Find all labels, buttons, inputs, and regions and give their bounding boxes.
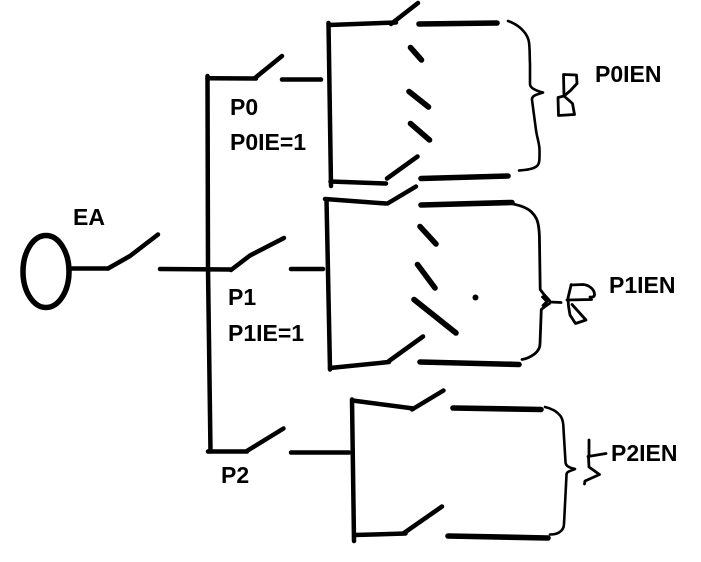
switch EA [108,235,158,269]
wire P1 to box [291,267,323,272]
EA source circle [23,236,69,308]
label P0IEN [595,63,661,86]
brace P0IEN [508,21,543,171]
wire P0 to box [282,77,321,82]
actuator stroke P1 [414,300,456,334]
squiggle P0IEN [558,75,577,116]
gate box P1 top edge [325,199,386,204]
label P2IEN [611,442,677,465]
label P1 [228,286,256,309]
dot P1 [473,295,479,301]
brace P2IEN [545,407,575,535]
node trunk vertical [208,76,211,452]
gate box P0 bottom edge [331,182,387,184]
label P1IEN [609,274,675,297]
gate box P2 top edge [353,401,414,409]
gate box P0 top edge [329,23,396,26]
gate box P0 left edge [329,23,332,186]
switch P0 gate bottom [387,157,418,179]
gate box P2 left edge [352,400,354,542]
wire P0 gate bottom right [421,176,508,179]
switch P2 gate top [412,391,444,410]
switch P2 [208,429,284,452]
gate box P2 bottom edge [355,534,406,536]
label P0IE=1 [230,131,306,154]
wire P1 gate top right [421,203,512,206]
label P2 [221,464,249,487]
switch P1 gate top [388,187,417,204]
switch P1 [231,238,284,270]
label P1IE=1 [228,322,304,345]
wire P0 gate top right [419,23,497,24]
switch P0 gate top [391,3,418,24]
switch P1 gate bottom [389,337,423,362]
wire P2 gate bottom right [448,536,548,538]
dashed gang link P0 [409,48,430,141]
wire P2 to box [291,450,349,455]
dashed gang link P1 [418,227,437,289]
brace P1IEN [508,203,561,360]
wire EA to switch [70,266,108,271]
wire P2 gate top right [453,408,541,410]
switch P2 gate bottom [404,507,442,534]
switch P0 [255,56,282,78]
label EA [73,206,105,229]
gate box P1 bottom edge [330,362,389,368]
squiggle P1IEN [567,285,595,324]
gate box P1 left edge [327,200,331,370]
wire P1 gate bottom right [420,362,519,365]
squiggle P2IEN [585,440,607,484]
wire junction to trunk [160,267,231,272]
label P0 [230,96,258,119]
wire P0 branch [208,76,257,81]
